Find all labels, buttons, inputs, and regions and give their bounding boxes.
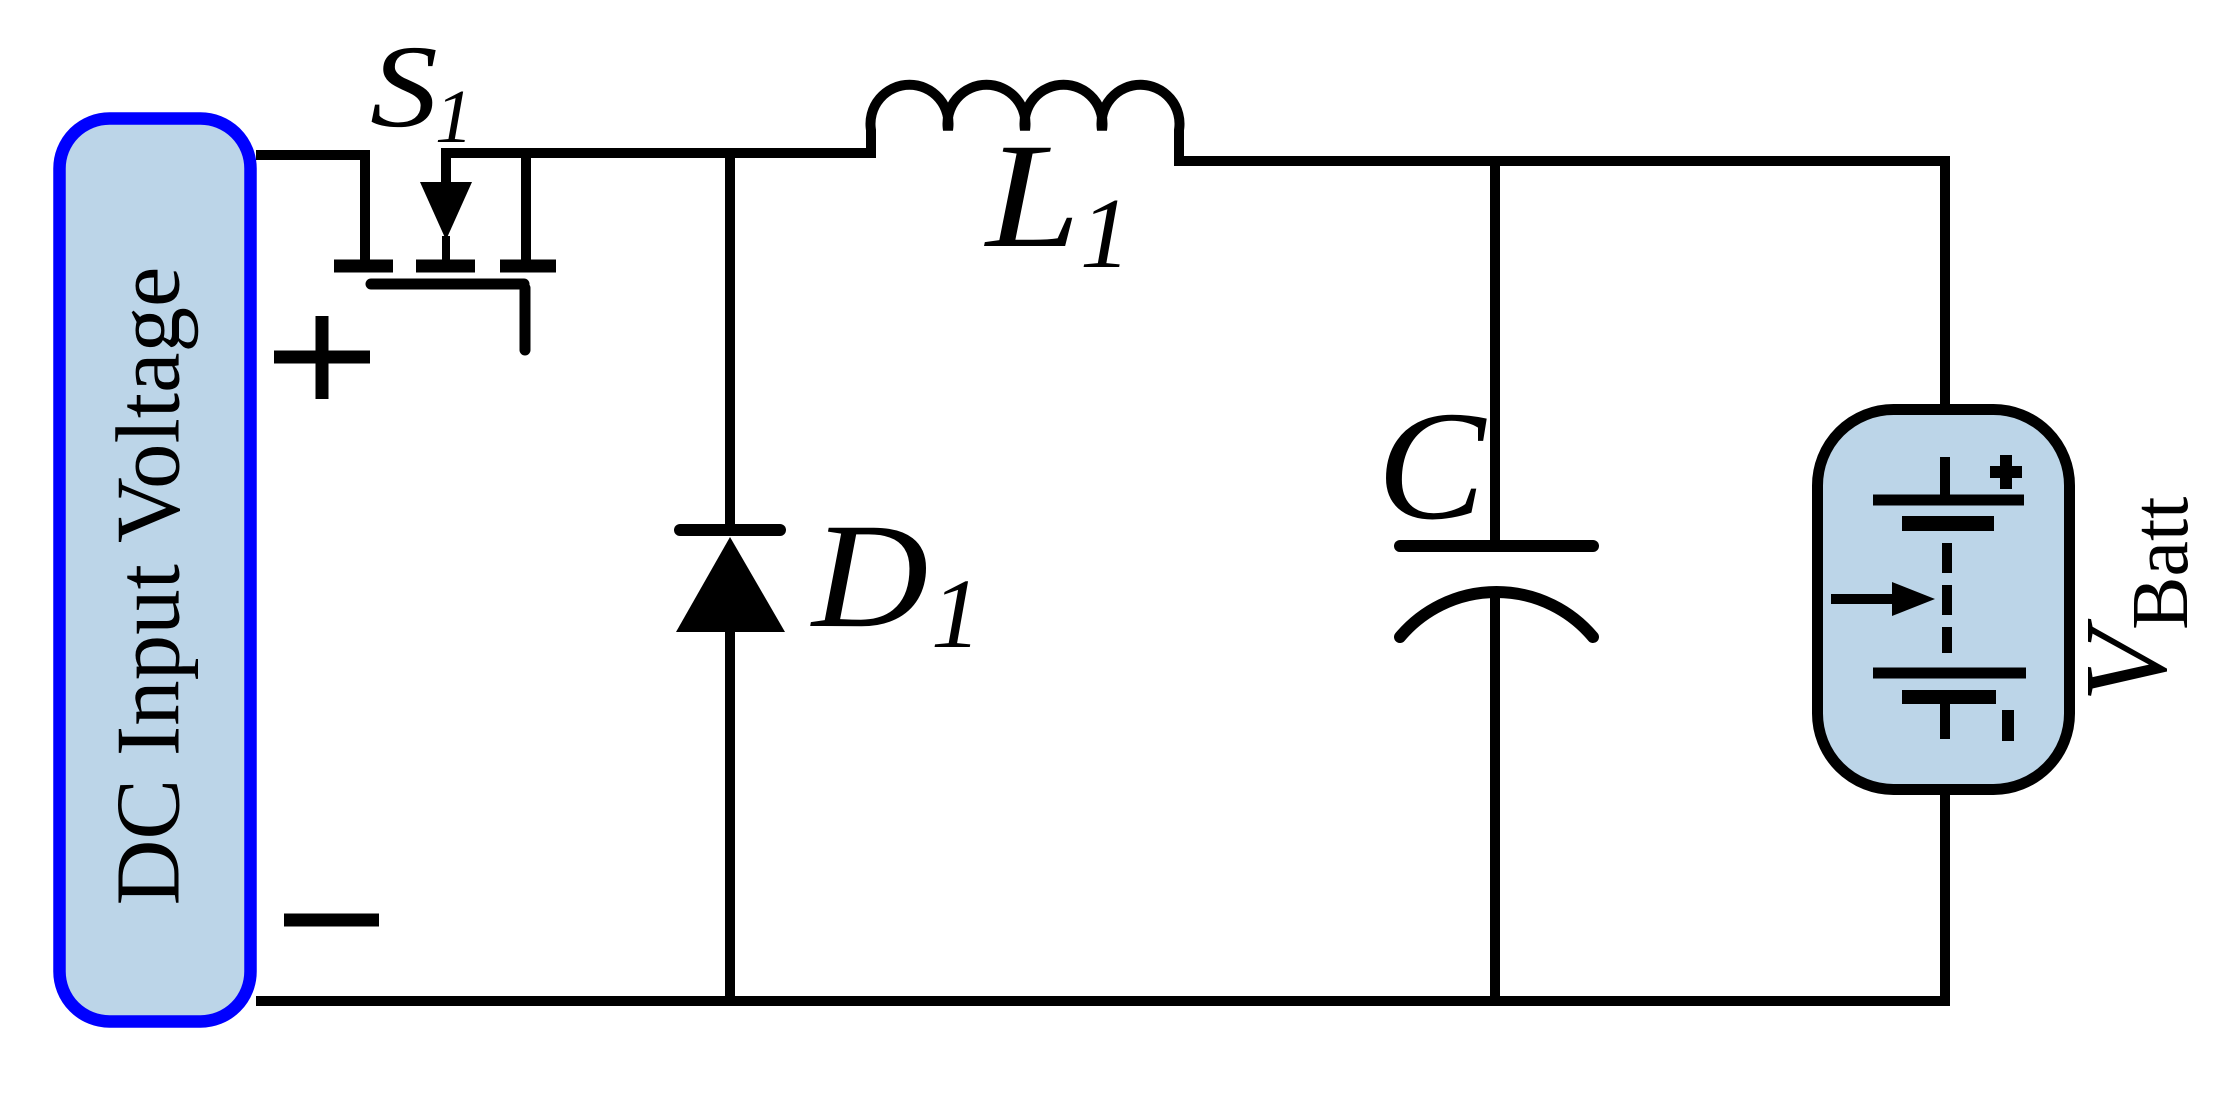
transistor S1 drain lead [360,150,370,260]
transistor S1 gate bar [371,279,524,290]
battery cell 2 long plate [1873,668,2026,679]
svg-text:VBatt: VBatt [2060,497,2205,702]
diode D1 lower wire [725,628,735,1001]
svg-text:D: D [810,492,929,659]
battery cell 1 long plate [1873,495,2024,506]
battery cell 2 short plate [1902,690,1996,704]
transistor S1 body lead lower [442,236,450,261]
wire bottom rail [256,795,1945,1001]
capacitor C upper wire [1490,161,1500,540]
svg-text:1: 1 [435,75,473,159]
wire top rail (switch to inductor) [441,148,871,158]
battery top lead [1940,457,1950,500]
node + [274,316,370,399]
wire top rail (inductor to battery) [1174,161,1945,410]
diode D1 anode wire [725,152,735,525]
transistor S1 channel pads [334,260,556,273]
battery minus tick [2002,710,2014,741]
capacitor C top plate [1400,540,1593,552]
battery plus sign [1990,455,2022,489]
battery cell 1 short plate [1902,516,1994,531]
svg-text:S: S [370,21,438,152]
diode D1 triangle [676,537,785,632]
svg-text:C: C [1377,380,1487,553]
transistor S1 source lead [521,153,531,261]
wire input top [256,150,370,160]
battery bottom lead [1940,704,1950,739]
battery dashed electrolyte line [1942,543,1952,653]
transistor S1 gate lead [520,288,531,350]
svg-text:1: 1 [931,558,981,669]
diode D1 cathode bar [680,524,780,536]
svg-text:DC Input Voltage: DC Input Voltage [98,267,199,906]
capacitor C bottom plate [1400,592,1593,637]
battery V_Batt body [1818,410,2070,790]
svg-text:1: 1 [1080,177,1131,289]
inductor L1 [871,85,1180,161]
svg-text:L: L [984,112,1080,279]
battery current arrow [1831,594,1898,604]
DC input voltage source box [60,119,251,1022]
capacitor C lower wire [1490,592,1500,1001]
node - [284,914,379,927]
transistor S1 body lead [441,153,451,184]
transistor S1 body diode arrow [420,182,472,240]
